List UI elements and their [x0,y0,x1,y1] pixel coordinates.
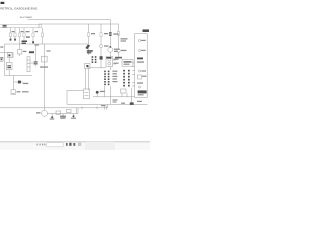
svg-text:EL-POWER: EL-POWER [20,17,32,19]
svg-text:PETROL, GASOLINE ENG.: PETROL, GASOLINE ENG. [0,7,38,11]
